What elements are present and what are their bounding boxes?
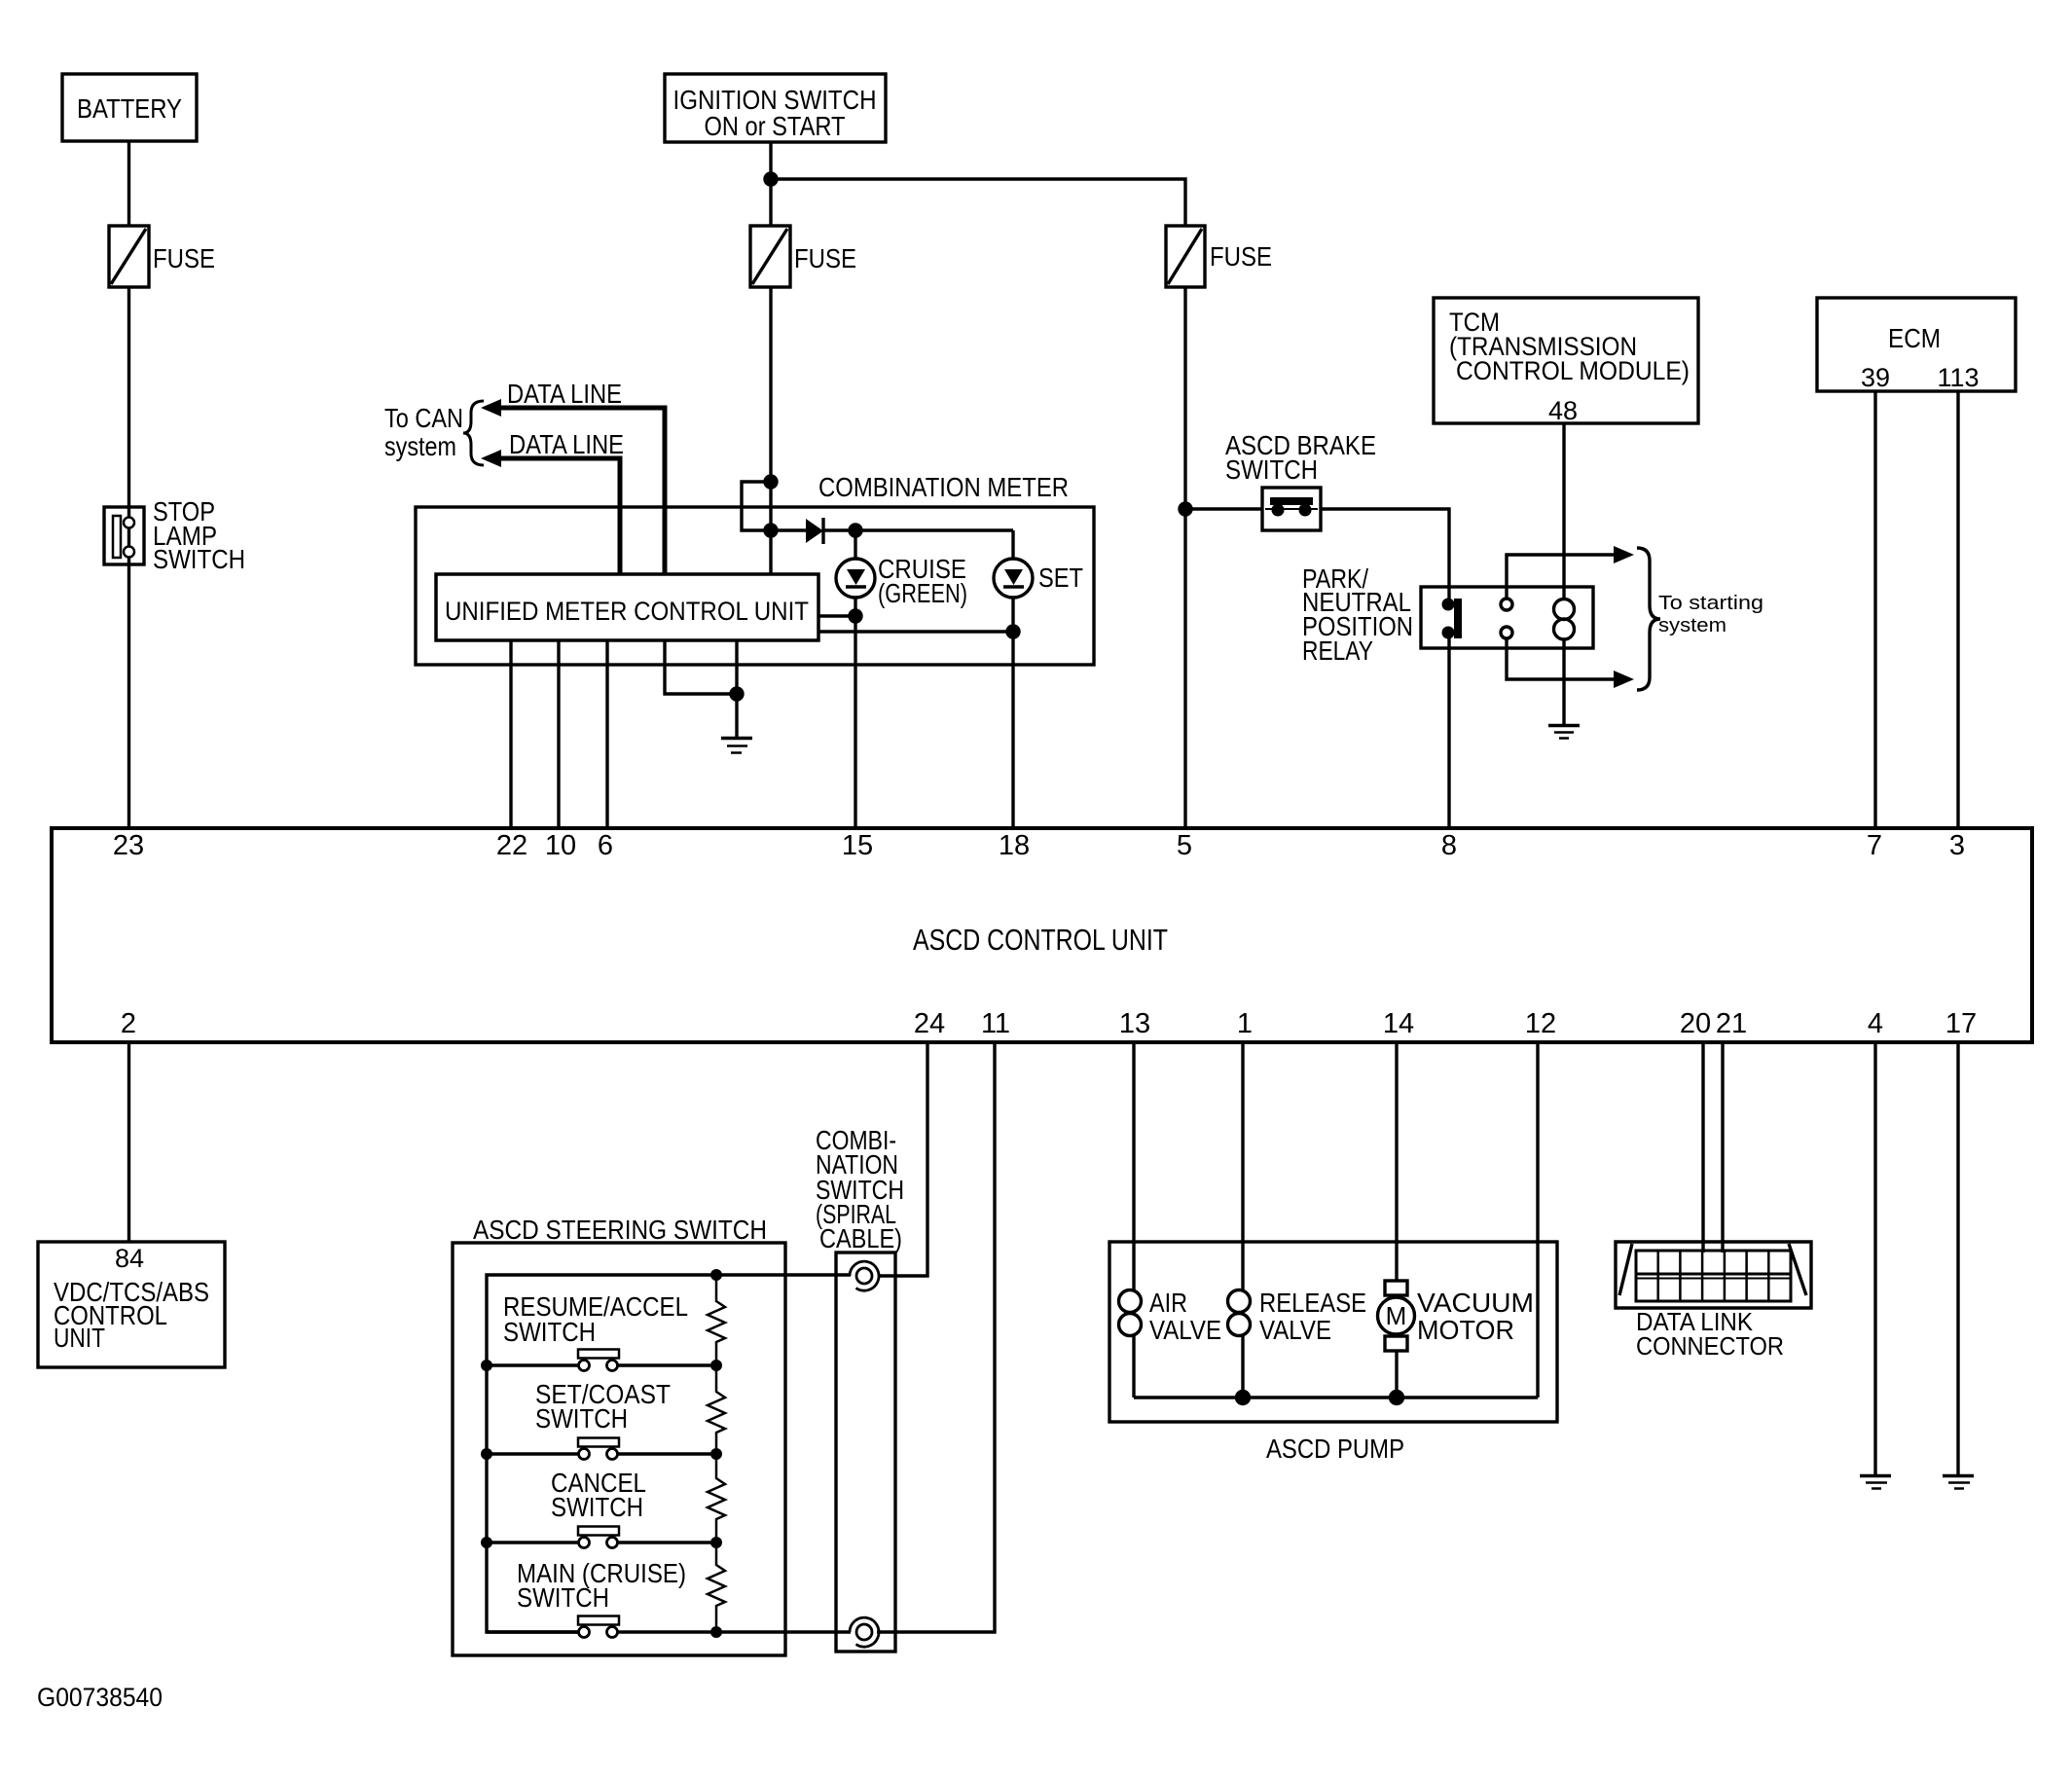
svg-text:FUSE: FUSE [1210, 241, 1272, 272]
resistor R2 (set/coast) [708, 1365, 725, 1454]
label FUSE F3 [1210, 241, 1272, 272]
cruise indicator LED [836, 530, 875, 598]
wire unified to ASCD pin 6 [605, 640, 608, 828]
svg-text:4: 4 [1868, 1008, 1883, 1039]
wire fuse F2 to unified meter control unit [769, 287, 772, 574]
wire ASCD pin 13 to air valve [1132, 1042, 1135, 1290]
label ECM [1888, 323, 1941, 353]
pin 14 [1383, 1008, 1414, 1039]
vacuum motor [1378, 1281, 1415, 1351]
ASCD steering switch outer box [453, 1243, 785, 1655]
label FUSE F1 [153, 243, 215, 273]
wire fuse to stop lamp switch [127, 287, 130, 507]
pin 7 [1867, 830, 1882, 861]
svg-text:5: 5 [1177, 830, 1192, 861]
pin 12 [1525, 1008, 1556, 1039]
svg-text:1: 1 [1237, 1008, 1253, 1039]
pin 8 [1441, 830, 1457, 861]
svg-text:DATA LINE: DATA LINE [509, 429, 624, 459]
label PARK/NEUTRAL POSITION RELAY [1302, 563, 1413, 666]
label AIR VALVE [1149, 1288, 1221, 1345]
wire cruise LED to ASCD pin 15 [854, 598, 856, 828]
svg-text:13: 13 [1119, 1008, 1150, 1039]
svg-text:12: 12 [1525, 1008, 1556, 1039]
ground (park/neutral relay) [1548, 726, 1580, 739]
svg-text:system: system [384, 431, 456, 461]
svg-text:39: 39 [1861, 363, 1890, 392]
svg-text:VALVE: VALVE [1259, 1315, 1331, 1345]
node pump bus junction release valve [1237, 1392, 1250, 1404]
wire ASCD pin 20 to data link connector [1701, 1042, 1704, 1253]
wire ignition bus to right fuse [771, 179, 1185, 226]
pin 39 ECM [1861, 363, 1890, 392]
svg-text:CABLE): CABLE) [819, 1223, 902, 1253]
wire vacuum motor to pump bus [1395, 1351, 1398, 1398]
svg-text:VALVE: VALVE [1149, 1315, 1221, 1345]
wire release valve to pump bus [1241, 1335, 1244, 1398]
svg-text:UNIFIED METER CONTROL UNIT: UNIFIED METER CONTROL UNIT [445, 597, 809, 626]
park/neutral position relay box [1421, 587, 1593, 648]
label DATA LINE 2 [509, 429, 624, 459]
pin 21 [1716, 1008, 1747, 1039]
pin 4 [1868, 1008, 1883, 1039]
pin 10 [545, 830, 576, 861]
resistor R3 (cancel) [708, 1454, 725, 1543]
pin 113 ECM [1937, 363, 1979, 392]
label ASCD CONTROL UNIT [913, 923, 1168, 957]
svg-text:SET: SET [1038, 563, 1083, 593]
pin 22 [496, 830, 527, 861]
svg-text:CONNECTOR: CONNECTOR [1636, 1331, 1784, 1361]
wire fuse F3 down to ASCD pin 5 [1183, 287, 1186, 828]
relay coil [1554, 599, 1575, 640]
VDC/TCS/ABS control unit box [38, 1242, 225, 1367]
svg-text:ASCD STEERING SWITCH: ASCD STEERING SWITCH [473, 1215, 767, 1245]
label M vacuum motor [1386, 1301, 1407, 1330]
svg-text:SWITCH: SWITCH [535, 1403, 628, 1434]
ASCD brake switch [1191, 488, 1321, 530]
wire ASCD pin 12 to pump bus [1536, 1042, 1539, 1398]
svg-text:FUSE: FUSE [794, 243, 856, 273]
label SET/COAST SWITCH [535, 1379, 671, 1434]
pin 84 VDC [115, 1244, 144, 1273]
label DATA LINK CONNECTOR [1636, 1307, 1784, 1361]
ECM box [1817, 298, 2016, 391]
svg-text:18: 18 [999, 830, 1030, 861]
combination switch spiral cable box [836, 1253, 895, 1652]
pin 48 TCM [1548, 396, 1578, 425]
wire ASCD pin 4 to ground [1873, 1042, 1876, 1474]
wire air valve to pump bus [1132, 1335, 1135, 1398]
svg-text:COMBINATION METER: COMBINATION METER [818, 472, 1069, 502]
label UNIFIED METER CONTROL UNIT [445, 597, 809, 626]
wire brake switch to relay [1321, 509, 1449, 600]
resume/accel switch row [487, 1350, 716, 1371]
label IGNITION SWITCH ON or START [673, 85, 877, 141]
svg-text:113: 113 [1937, 363, 1979, 392]
label COMBINATION SWITCH (SPIRAL CABLE) [816, 1125, 904, 1253]
node unified to set junction [818, 626, 1019, 637]
ground (combination meter) [721, 739, 752, 753]
wire connector jog at combination meter [742, 482, 771, 530]
svg-text:ECM: ECM [1888, 323, 1941, 353]
svg-text:BATTERY: BATTERY [77, 93, 182, 124]
relay switch terminal upper [1501, 599, 1512, 610]
label RESUME/ACCEL SWITCH [503, 1291, 688, 1347]
fuse F3 (ASCD) [1166, 226, 1205, 287]
svg-text:SWITCH: SWITCH [153, 544, 245, 574]
svg-text:To CAN: To CAN [384, 403, 463, 433]
svg-text:14: 14 [1383, 1008, 1414, 1039]
svg-text:system: system [1658, 615, 1727, 636]
svg-text:ON or START: ON or START [705, 111, 846, 141]
pin 2 [121, 1008, 136, 1039]
svg-text:To starting: To starting [1658, 593, 1763, 614]
diode D1 in combination meter [777, 518, 1013, 544]
set indicator LED [994, 530, 1033, 598]
node steering left junctions [481, 1360, 492, 1548]
wire battery to fuse [127, 141, 130, 226]
wire steering switch to spiral cable top [716, 1273, 851, 1276]
svg-text:FUSE: FUSE [153, 243, 215, 273]
ASCD control unit box [52, 828, 2032, 1042]
air valve coil [1119, 1290, 1142, 1336]
svg-text:(GREEN): (GREEN) [878, 578, 967, 608]
spiral cable symbol bottom [850, 1617, 879, 1647]
svg-text:23: 23 [113, 830, 144, 861]
node ground junction [731, 688, 743, 700]
svg-text:SWITCH: SWITCH [503, 1317, 596, 1347]
wire TCM pin 48 to relay coil [1562, 423, 1565, 599]
ground (ASCD pin 4) [1860, 1476, 1891, 1489]
node meter supply junction lower [765, 525, 777, 536]
svg-text:15: 15 [842, 830, 873, 861]
ASCD steering switch inner frame [487, 1275, 716, 1632]
node steering right junctions [710, 1269, 722, 1638]
svg-text:10: 10 [545, 830, 576, 861]
release valve coil [1228, 1290, 1251, 1336]
svg-text:RELEASE: RELEASE [1259, 1288, 1366, 1318]
wire ASCD pin 1 to release valve [1241, 1042, 1244, 1290]
label MAIN (CRUISE) SWITCH [517, 1558, 686, 1613]
svg-text:11: 11 [981, 1008, 1010, 1039]
node brake switch junction [1180, 503, 1191, 515]
pin 13 [1119, 1008, 1150, 1039]
wire ASCD pin 14 to vacuum motor [1395, 1042, 1398, 1281]
wire ASCD pin 17 to ground [1956, 1042, 1959, 1474]
main (cruise) switch row [487, 1616, 716, 1638]
wire relay to ASCD pin 8 [1447, 636, 1450, 828]
svg-text:17: 17 [1945, 1008, 1977, 1039]
label CANCEL SWITCH [551, 1468, 646, 1522]
battery B1 [62, 74, 197, 141]
label STOP LAMP SWITCH [153, 496, 245, 574]
svg-text:AIR: AIR [1149, 1288, 1187, 1318]
svg-text:21: 21 [1716, 1008, 1747, 1039]
TCM box [1434, 298, 1698, 423]
pin 3 [1949, 830, 1965, 861]
set/coast switch row [487, 1438, 716, 1460]
fuse F2 (combination meter) [750, 226, 790, 287]
data line arrow 1 [481, 399, 665, 574]
relay contact [1442, 599, 1463, 639]
svg-text:7: 7 [1867, 830, 1882, 861]
svg-text:22: 22 [496, 830, 527, 861]
combination meter box [416, 507, 1094, 665]
label ASCD PUMP [1266, 1434, 1404, 1464]
node pump bus junction vacuum motor [1391, 1392, 1403, 1404]
svg-text:8: 8 [1441, 830, 1457, 861]
pin 5 [1177, 830, 1192, 861]
label RELEASE VALVE [1259, 1288, 1366, 1345]
node meter supply junction upper [765, 476, 777, 488]
label ASCD STEERING SWITCH [473, 1215, 767, 1245]
svg-text:84: 84 [115, 1244, 144, 1273]
ignition switch box [665, 74, 886, 142]
ground (ASCD pin 17) [1943, 1476, 1974, 1489]
wire relay coil to ground [1562, 639, 1565, 724]
label VDC/TCS/ABS CONTROL UNIT [54, 1277, 209, 1353]
svg-text:SWITCH: SWITCH [1225, 454, 1318, 485]
ASCD pump box [1109, 1242, 1557, 1422]
label FUSE F2 [794, 243, 856, 273]
wire ASCD pin 11 to spiral cable [877, 1042, 995, 1632]
label DATA LINE 1 [507, 379, 622, 409]
svg-text:MOTOR: MOTOR [1417, 1315, 1514, 1345]
label TCM [1449, 308, 1690, 385]
label G00738540 [37, 1683, 163, 1712]
label CRUISE (GREEN) [878, 554, 967, 608]
svg-text:DATA LINE: DATA LINE [507, 379, 622, 409]
label To starting system [1658, 593, 1763, 636]
pin 1 [1237, 1008, 1253, 1039]
label VACUUM MOTOR [1417, 1288, 1534, 1345]
data line arrow 2 [481, 450, 620, 574]
wire ignition switch down [769, 142, 772, 226]
fuse F1 (battery) [109, 226, 149, 287]
pin 17 [1945, 1008, 1977, 1039]
data link connector body [1616, 1242, 1811, 1308]
relay switch terminal lower [1501, 627, 1512, 638]
svg-text:ASCD PUMP: ASCD PUMP [1266, 1434, 1404, 1464]
svg-text:SWITCH: SWITCH [517, 1582, 609, 1613]
label SET [1038, 563, 1083, 593]
wire unified to ground [735, 640, 738, 737]
svg-text:SWITCH: SWITCH [551, 1492, 643, 1522]
wire ASCD pin 2 to VDC unit [127, 1042, 130, 1242]
pin 11 [981, 1008, 1010, 1039]
pin 20 [1680, 1008, 1711, 1039]
node unified to cruise junction [818, 610, 861, 622]
brace to CAN system [463, 401, 484, 465]
pin 18 [999, 830, 1030, 861]
svg-text:3: 3 [1949, 830, 1965, 861]
resistor R4 (main) [708, 1543, 725, 1632]
wire stop lamp switch to ASCD pin 23 [127, 564, 130, 828]
wire ASCD pin 21 to data link connector [1721, 1042, 1724, 1253]
pin 6 [598, 830, 613, 861]
node ignition junction [765, 173, 777, 185]
node cruise lamp junction [850, 525, 861, 536]
wire unified to ASCD pin 10 [557, 640, 560, 828]
svg-text:CONTROL MODULE): CONTROL MODULE) [1456, 356, 1690, 385]
resistor R1 (resume/accel) [708, 1275, 725, 1365]
label COMBINATION METER [818, 472, 1069, 502]
brace to starting system [1637, 548, 1660, 690]
pin 24 [914, 1008, 945, 1039]
wire ASCD pump bus [1134, 1396, 1538, 1398]
unified meter control unit box [436, 574, 818, 640]
wire unified to ASCD pin 22 [509, 640, 512, 828]
svg-text:RELAY: RELAY [1302, 635, 1373, 666]
wire unified ground jog [665, 640, 737, 694]
svg-text:20: 20 [1680, 1008, 1711, 1039]
cancel switch row [487, 1527, 716, 1548]
svg-text:24: 24 [914, 1008, 945, 1039]
stop lamp switch S1 [104, 507, 144, 564]
pin 15 [842, 830, 873, 861]
svg-text:2: 2 [121, 1008, 136, 1039]
wire ECM pin 113 to ASCD pin 3 [1956, 391, 1959, 828]
data link connector grid [1636, 1251, 1791, 1301]
svg-text:48: 48 [1548, 396, 1578, 425]
label BATTERY [77, 93, 182, 124]
wire ASCD pin 24 to spiral cable [878, 1042, 927, 1276]
svg-text:M: M [1386, 1301, 1407, 1330]
wire set LED to ASCD pin 18 [1011, 598, 1014, 828]
pin 23 [113, 830, 144, 861]
wire ECM pin 39 to ASCD pin 7 [1873, 391, 1876, 828]
svg-text:ASCD CONTROL UNIT: ASCD CONTROL UNIT [913, 923, 1168, 957]
label To CAN system [384, 403, 463, 461]
svg-text:VACUUM: VACUUM [1417, 1288, 1534, 1318]
spiral cable symbol top [850, 1261, 879, 1290]
label ASCD BRAKE SWITCH [1225, 430, 1376, 485]
svg-text:G00738540: G00738540 [37, 1683, 163, 1712]
wire steering switch to spiral cable bottom [716, 1630, 851, 1633]
svg-text:UNIT: UNIT [54, 1323, 105, 1353]
wire relay to starting system upper [1507, 546, 1634, 599]
svg-text:6: 6 [598, 830, 613, 861]
wire relay to starting system lower [1507, 638, 1634, 688]
